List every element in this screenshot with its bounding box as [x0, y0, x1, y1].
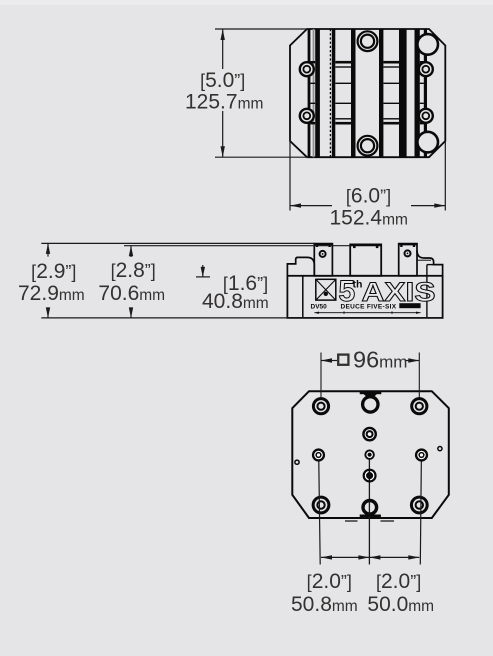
top view right big hole top	[417, 34, 438, 55]
[1.6"] arrow	[201, 267, 205, 277]
bottom view right small hole	[415, 448, 428, 461]
top view serrations right jaw column	[383, 62, 399, 123]
svg-text:DEUCE FIVE-SIX: DEUCE FIVE-SIX	[341, 304, 397, 311]
hidden dimension line inside base	[314, 311, 420, 314]
left jaw top serration marks	[314, 243, 332, 245]
side view right step profile	[417, 251, 443, 276]
bottom view counterbore top-left	[313, 399, 328, 414]
side view left step profile	[287, 257, 314, 275]
bottom view center hole 3	[363, 469, 377, 483]
arrow right	[434, 203, 445, 207]
extension line bottom	[215, 156, 308, 158]
[2.8"] arrow tails	[130, 246, 132, 257]
svg-text:[2.8”]: [2.8”]	[111, 259, 156, 282]
bottom view top tab	[360, 391, 382, 394]
svg-text:[2.0”]: [2.0”]	[307, 570, 352, 593]
top view right jaw plate bar	[399, 29, 407, 157]
right jaw screw	[405, 250, 411, 256]
bottom view center hole small	[364, 450, 374, 460]
[1.6"] extension stub	[196, 276, 210, 278]
top view serrations left jaw column	[335, 62, 351, 123]
arrow left	[290, 203, 301, 207]
top view left clamp bar	[315, 29, 320, 157]
right step inner line	[426, 265, 428, 318]
svg-text:DV50: DV50	[311, 304, 328, 311]
bottom view counterbore bottom-right	[411, 497, 427, 513]
svg-text:[5.0”]: [5.0”]	[200, 69, 245, 92]
bottom view center hole 2	[362, 427, 377, 442]
bottom view left small hole	[312, 448, 325, 461]
label barcode	[399, 303, 420, 308]
right ledge lower line	[417, 259, 431, 261]
[1.6"] arrow tail	[202, 265, 204, 277]
top view right jaw bar C	[379, 29, 383, 157]
top view left jaw plate bar	[332, 29, 336, 157]
svg-text:[2.0”]: [2.0”]	[376, 570, 421, 593]
top view center screw boss bottom	[358, 136, 378, 156]
extension line right	[444, 141, 446, 211]
centerline middle	[368, 450, 370, 565]
top view dashed centerline left	[329, 29, 331, 157]
side view left jaw block	[314, 244, 332, 276]
logo box with X	[316, 279, 336, 300]
side view right jaw block	[399, 244, 417, 276]
dimension line left segment	[290, 205, 332, 207]
square symbol	[338, 355, 348, 365]
right ledge2 extension	[427, 264, 434, 266]
svg-text:[2.9”]: [2.9”]	[31, 260, 76, 283]
svg-text:[6.0”]: [6.0”]	[346, 185, 391, 208]
center block top serration marks	[350, 244, 381, 247]
right jaw top serration marks	[399, 243, 417, 245]
top view left jaw bar B	[351, 29, 356, 157]
bottom view big hole top-center	[363, 397, 378, 412]
[2.9"] arrows	[46, 243, 50, 254]
svg-text:AXIS: AXIS	[362, 277, 436, 307]
[2.8"] arrows	[129, 246, 133, 257]
top view right counterbore top	[419, 62, 433, 76]
bottom view big hole bottom-center	[363, 501, 377, 515]
bottom view counterbore bottom-left	[313, 497, 329, 513]
[2.9"] arrow tails	[47, 243, 49, 256]
top view right big hole bottom	[417, 132, 438, 153]
extension line left	[289, 141, 291, 211]
bottom view tiny dot left	[295, 460, 299, 464]
centerline right lower	[420, 455, 421, 565]
top view serrations far-right column	[420, 62, 424, 123]
bottom view hidden dash bottom	[345, 520, 358, 522]
centerline right upper	[418, 353, 420, 400]
top view left counterbore top	[300, 62, 314, 76]
bottom view octagon outline	[292, 391, 449, 518]
extension line top	[215, 28, 308, 30]
dimension line upper segment	[222, 29, 224, 69]
centerline left upper	[320, 353, 322, 400]
extension line jaw top	[41, 242, 315, 244]
dimension line right segment	[411, 205, 445, 207]
top view body octagon outline	[290, 29, 445, 157]
top view left counterbore bottom	[300, 109, 314, 123]
top view right counterbore bottom	[419, 109, 433, 123]
side view center block	[350, 244, 381, 275]
top view gray shadow line left	[313, 29, 315, 157]
left label panel line	[302, 276, 304, 318]
extension line base bottom	[41, 317, 442, 319]
jaw screw center dots	[322, 253, 324, 255]
arrow up	[221, 29, 225, 40]
centerline left lower	[319, 455, 321, 565]
bottom view counterbore top-right	[412, 399, 427, 414]
top view right clamp bar	[415, 29, 420, 157]
extension line center block top	[124, 245, 350, 247]
bottom view bottom tab	[360, 515, 381, 519]
top view right rail thin line	[424, 29, 427, 157]
arrow down	[221, 146, 225, 157]
top view center screw boss top	[358, 31, 378, 51]
left jaw screw	[320, 251, 326, 257]
top view serrations far-left column	[310, 62, 315, 123]
bottom view tiny dot right	[438, 447, 442, 451]
top view jaw rail thin line left	[308, 29, 311, 157]
side view body rectangle	[287, 276, 442, 318]
dimension line lower segment	[222, 111, 224, 157]
